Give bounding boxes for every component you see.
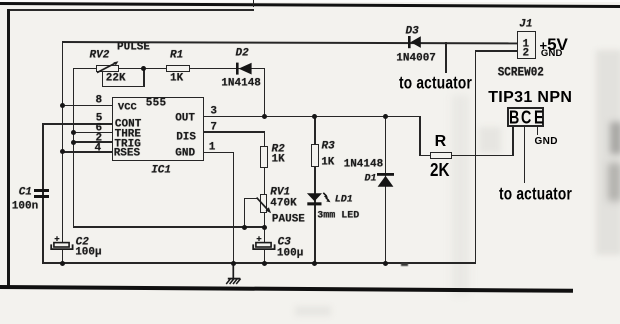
value 1K (R1) (170, 73, 183, 84)
junction dot OUT/R3 (312, 114, 317, 119)
wire: D1 column vertical (385, 116, 387, 264)
annotation TIP31 NPN (488, 90, 572, 106)
label R2 (272, 144, 285, 155)
annotation GND (J1) (541, 49, 563, 59)
wire: +5V top rail from line A to J1 pin 1 (62, 41, 518, 44)
value 100n (12, 201, 38, 212)
frame: bottom thick border line (0, 285, 573, 292)
wire: RV2 wiper loop bottom (102, 86, 145, 88)
junction dot RV1 bottom / C3 (262, 225, 267, 230)
pin label DIS (176, 132, 196, 143)
pin number 2 (96, 133, 103, 144)
label D3 (406, 26, 419, 37)
pin label GND (175, 148, 195, 159)
value 1N4007 (396, 53, 436, 64)
pin number 5 (96, 113, 103, 124)
IC U1 555 timer body (112, 97, 204, 161)
diode D1 (1N4148) (376, 172, 395, 188)
junction dot pin2/lineB (71, 140, 76, 145)
diode D3 (1N4007) (406, 35, 423, 49)
wire: CONT/C1 vertical to ground rail (42, 123, 44, 264)
wire: RV1 wiper horizontal (244, 198, 258, 200)
scan artifact: right edge gray band (596, 50, 620, 255)
wire: R to base horizontal (451, 155, 514, 157)
transistor pin letter B (509, 109, 519, 127)
wire: RV1 wiper return vertical (244, 198, 246, 228)
wire: CONT pin 5 horizontal (42, 123, 113, 125)
junction dot OUT/D2 (262, 114, 267, 119)
wire: THRE/TRIG loop bottom horizontal to C3 node (73, 226, 266, 228)
wire: DIS corner down to R2 (264, 131, 266, 147)
IC1 label 555 (146, 99, 167, 110)
junction dot D1/rail (383, 261, 388, 266)
frame: top inner thin line (9, 9, 254, 10)
value 1K (R3) (321, 157, 334, 168)
potentiometer RV2 wiper arrow (93, 55, 123, 79)
junction dot pin4/lineA (60, 149, 65, 154)
value 100µ (C2) (75, 248, 101, 259)
annotation +5V (540, 36, 568, 53)
label 3mm LED (317, 211, 359, 221)
pin label OUT (175, 113, 195, 124)
wire: DIS pin 7 horizontal (204, 131, 266, 133)
wire: R3 column vertical (314, 116, 316, 264)
label PAUSE (272, 215, 305, 226)
potentiometer RV2 body (96, 65, 118, 72)
wire: pin 1 vertical down to rail (233, 152, 235, 264)
wire: pin 2 stub (73, 141, 113, 143)
wire: R left stub (419, 155, 430, 157)
transistor pin letter E (534, 109, 544, 127)
wire: corner down to R (419, 116, 421, 156)
pin number 4 (95, 143, 102, 154)
junction dot pin1/rail (231, 261, 236, 266)
IC1 reference label (151, 165, 171, 176)
wire: line A below C2 to ground rail (62, 250, 64, 264)
wire: line B vertical (THRE/TRIG net) x=73 (73, 68, 75, 227)
wire: pin 8 stub (62, 105, 113, 107)
junction dot pin6/lineB (71, 130, 76, 135)
wire: ground rail bottom (42, 262, 476, 264)
wire: R2 to RV1 vertical (264, 167, 266, 195)
potentiometer RV1 wiper arrow (254, 195, 276, 217)
junction dot OUT/D1 (383, 114, 388, 119)
label PULSE (117, 42, 150, 53)
label J1 (519, 19, 532, 30)
junction dot wiper return (242, 225, 247, 230)
annotation 2K (430, 162, 449, 180)
transistor pin letter C (521, 109, 531, 127)
scan artifact: smudge left of transistor (479, 127, 501, 153)
pin label TRIG (114, 139, 140, 150)
resistor R2 body (260, 146, 268, 168)
label C2 (76, 237, 89, 248)
resistor R1 body (166, 65, 189, 72)
wire: D2 output corner vertical (264, 68, 266, 117)
scan artifact: right edge dark blob 1 (610, 122, 620, 154)
pin label RSES (114, 148, 140, 159)
wire: emitter lead vertical (537, 127, 539, 135)
capacitor C3 (polarized) (251, 234, 277, 252)
wire: GND pin 1 horizontal (204, 152, 235, 154)
potentiometer RV1 body (260, 194, 267, 213)
junction dot pin8/lineA (60, 103, 65, 108)
frame: top thick border line (0, 2, 620, 8)
label RV1 (270, 187, 290, 198)
value 22K (106, 73, 126, 84)
wire: line A vertical (VCC/RSES net) x=62 (62, 41, 64, 243)
annotation R (435, 134, 447, 150)
capacitor C1 top plate (34, 189, 50, 193)
wire: collector lead vertical (524, 127, 526, 184)
junction dot C2/rail (60, 261, 65, 266)
label R1 (170, 50, 183, 61)
scan artifact: light gray band center-right (452, 95, 469, 295)
scan artifact: white strip above top border (0, 0, 620, 2)
wire: pin 6 stub (73, 132, 113, 134)
ground symbol (222, 262, 246, 286)
pin label THRE (115, 130, 141, 141)
wire: J1 pin 2 horizontal (475, 50, 518, 52)
label C1 (19, 187, 32, 198)
pin number 7 (210, 122, 217, 133)
wire: J1 pin 2 vertical down to rail (475, 50, 477, 264)
junction dot C3/rail (262, 261, 267, 266)
connector J1 body (517, 31, 536, 59)
capacitor C2 (polarized) (49, 234, 75, 252)
value 1N4148 (D2) (221, 78, 261, 89)
transistor Q1 TIP31 body box (507, 107, 544, 127)
resistor R3 body (311, 144, 319, 167)
wire: RV1 to C3 vertical (264, 213, 266, 243)
value 1N4148 (D1) (344, 160, 384, 171)
label SCREW02 (498, 67, 544, 80)
LED LD1 (305, 191, 333, 207)
annotation to actuator (bottom) (499, 184, 572, 202)
wire: pin 4 stub (62, 151, 113, 153)
scan artifact: bottom smudge (295, 306, 331, 316)
pin number 8 (96, 95, 103, 106)
label LD1 (335, 195, 353, 205)
resistor R body (2K) (430, 152, 452, 159)
junction dot LED/rail (312, 261, 317, 266)
wire: base lead vertical (512, 127, 514, 157)
label C3 (278, 237, 291, 248)
value 100µ (C3) (277, 249, 303, 260)
wire: C3 to ground rail vertical (264, 249, 266, 264)
scan artifact: dark tick on rail (401, 263, 408, 266)
value 470K (270, 198, 296, 209)
diode D2 (1N4148) (234, 61, 254, 76)
pin number 1 (209, 142, 216, 153)
annotation to actuator (top) (399, 73, 472, 91)
value 1K (R2) (272, 154, 285, 165)
wire: RV2 row horizontal (timing loop top) (73, 68, 266, 70)
wire: to-actuator tap vertical after D3 (445, 42, 447, 74)
pin number 6 (96, 123, 103, 134)
wire: OUT pin 3 horizontal (204, 116, 421, 118)
J1 pin number 1 (523, 40, 530, 51)
label RV2 (90, 50, 110, 61)
capacitor C1 bottom plate (34, 195, 50, 199)
junction dot RV2 loop right (141, 66, 146, 71)
annotation GND (emitter) (535, 137, 558, 147)
frame: top tick divider (253, 0, 255, 7)
J1 pin number 2 (523, 48, 530, 59)
wire: RV2 wiper loop right vertical (143, 69, 145, 88)
frame: left border line (7, 9, 10, 287)
wire: RV2 wiper loop left vertical (102, 72, 104, 87)
pin label CONT (115, 119, 141, 130)
label R3 (322, 142, 335, 153)
label D2 (236, 48, 249, 59)
pin number 3 (210, 106, 217, 117)
scan artifact: right edge dark blob 2 (608, 163, 620, 201)
label D1 (365, 174, 377, 184)
pin label VCC (118, 102, 137, 113)
